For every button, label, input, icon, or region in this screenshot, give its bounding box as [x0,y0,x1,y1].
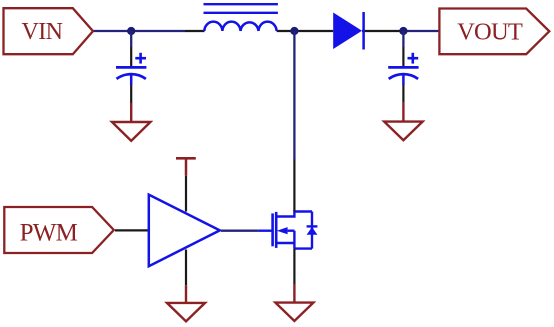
svg-text:VOUT: VOUT [457,19,523,46]
svg-text:PWM: PWM [20,219,78,246]
svg-text:VIN: VIN [21,19,62,45]
